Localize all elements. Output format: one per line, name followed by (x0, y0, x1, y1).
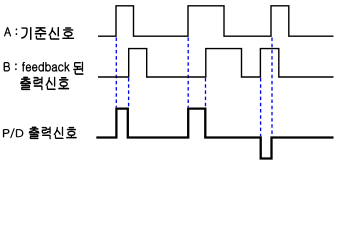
waveform A (reference signal) (98, 6, 334, 36)
label B : feedback (4, 62, 69, 71)
dashed guide at A rising edge 1 (115, 38, 117, 108)
label P/D (3, 128, 23, 137)
waveform B (feedback output signal) (98, 49, 334, 77)
label 기준신호 (21, 27, 73, 40)
dashed guide at A rising edge 2 (187, 38, 189, 108)
label A : (4, 27, 17, 36)
label 출력신호 (line 2 of B) (20, 77, 69, 90)
label 출력신호 (P/D row) (29, 127, 77, 139)
dashed guide at B rising edge 2 (205, 78, 207, 107)
waveform P/D output (96, 109, 333, 159)
dashed guide at B rising edge 3 (260, 78, 262, 136)
label 된 (74, 62, 84, 75)
dashed guide at B rising edge 1 (128, 78, 130, 107)
dashed guide at A rising edge 3 (271, 38, 273, 137)
